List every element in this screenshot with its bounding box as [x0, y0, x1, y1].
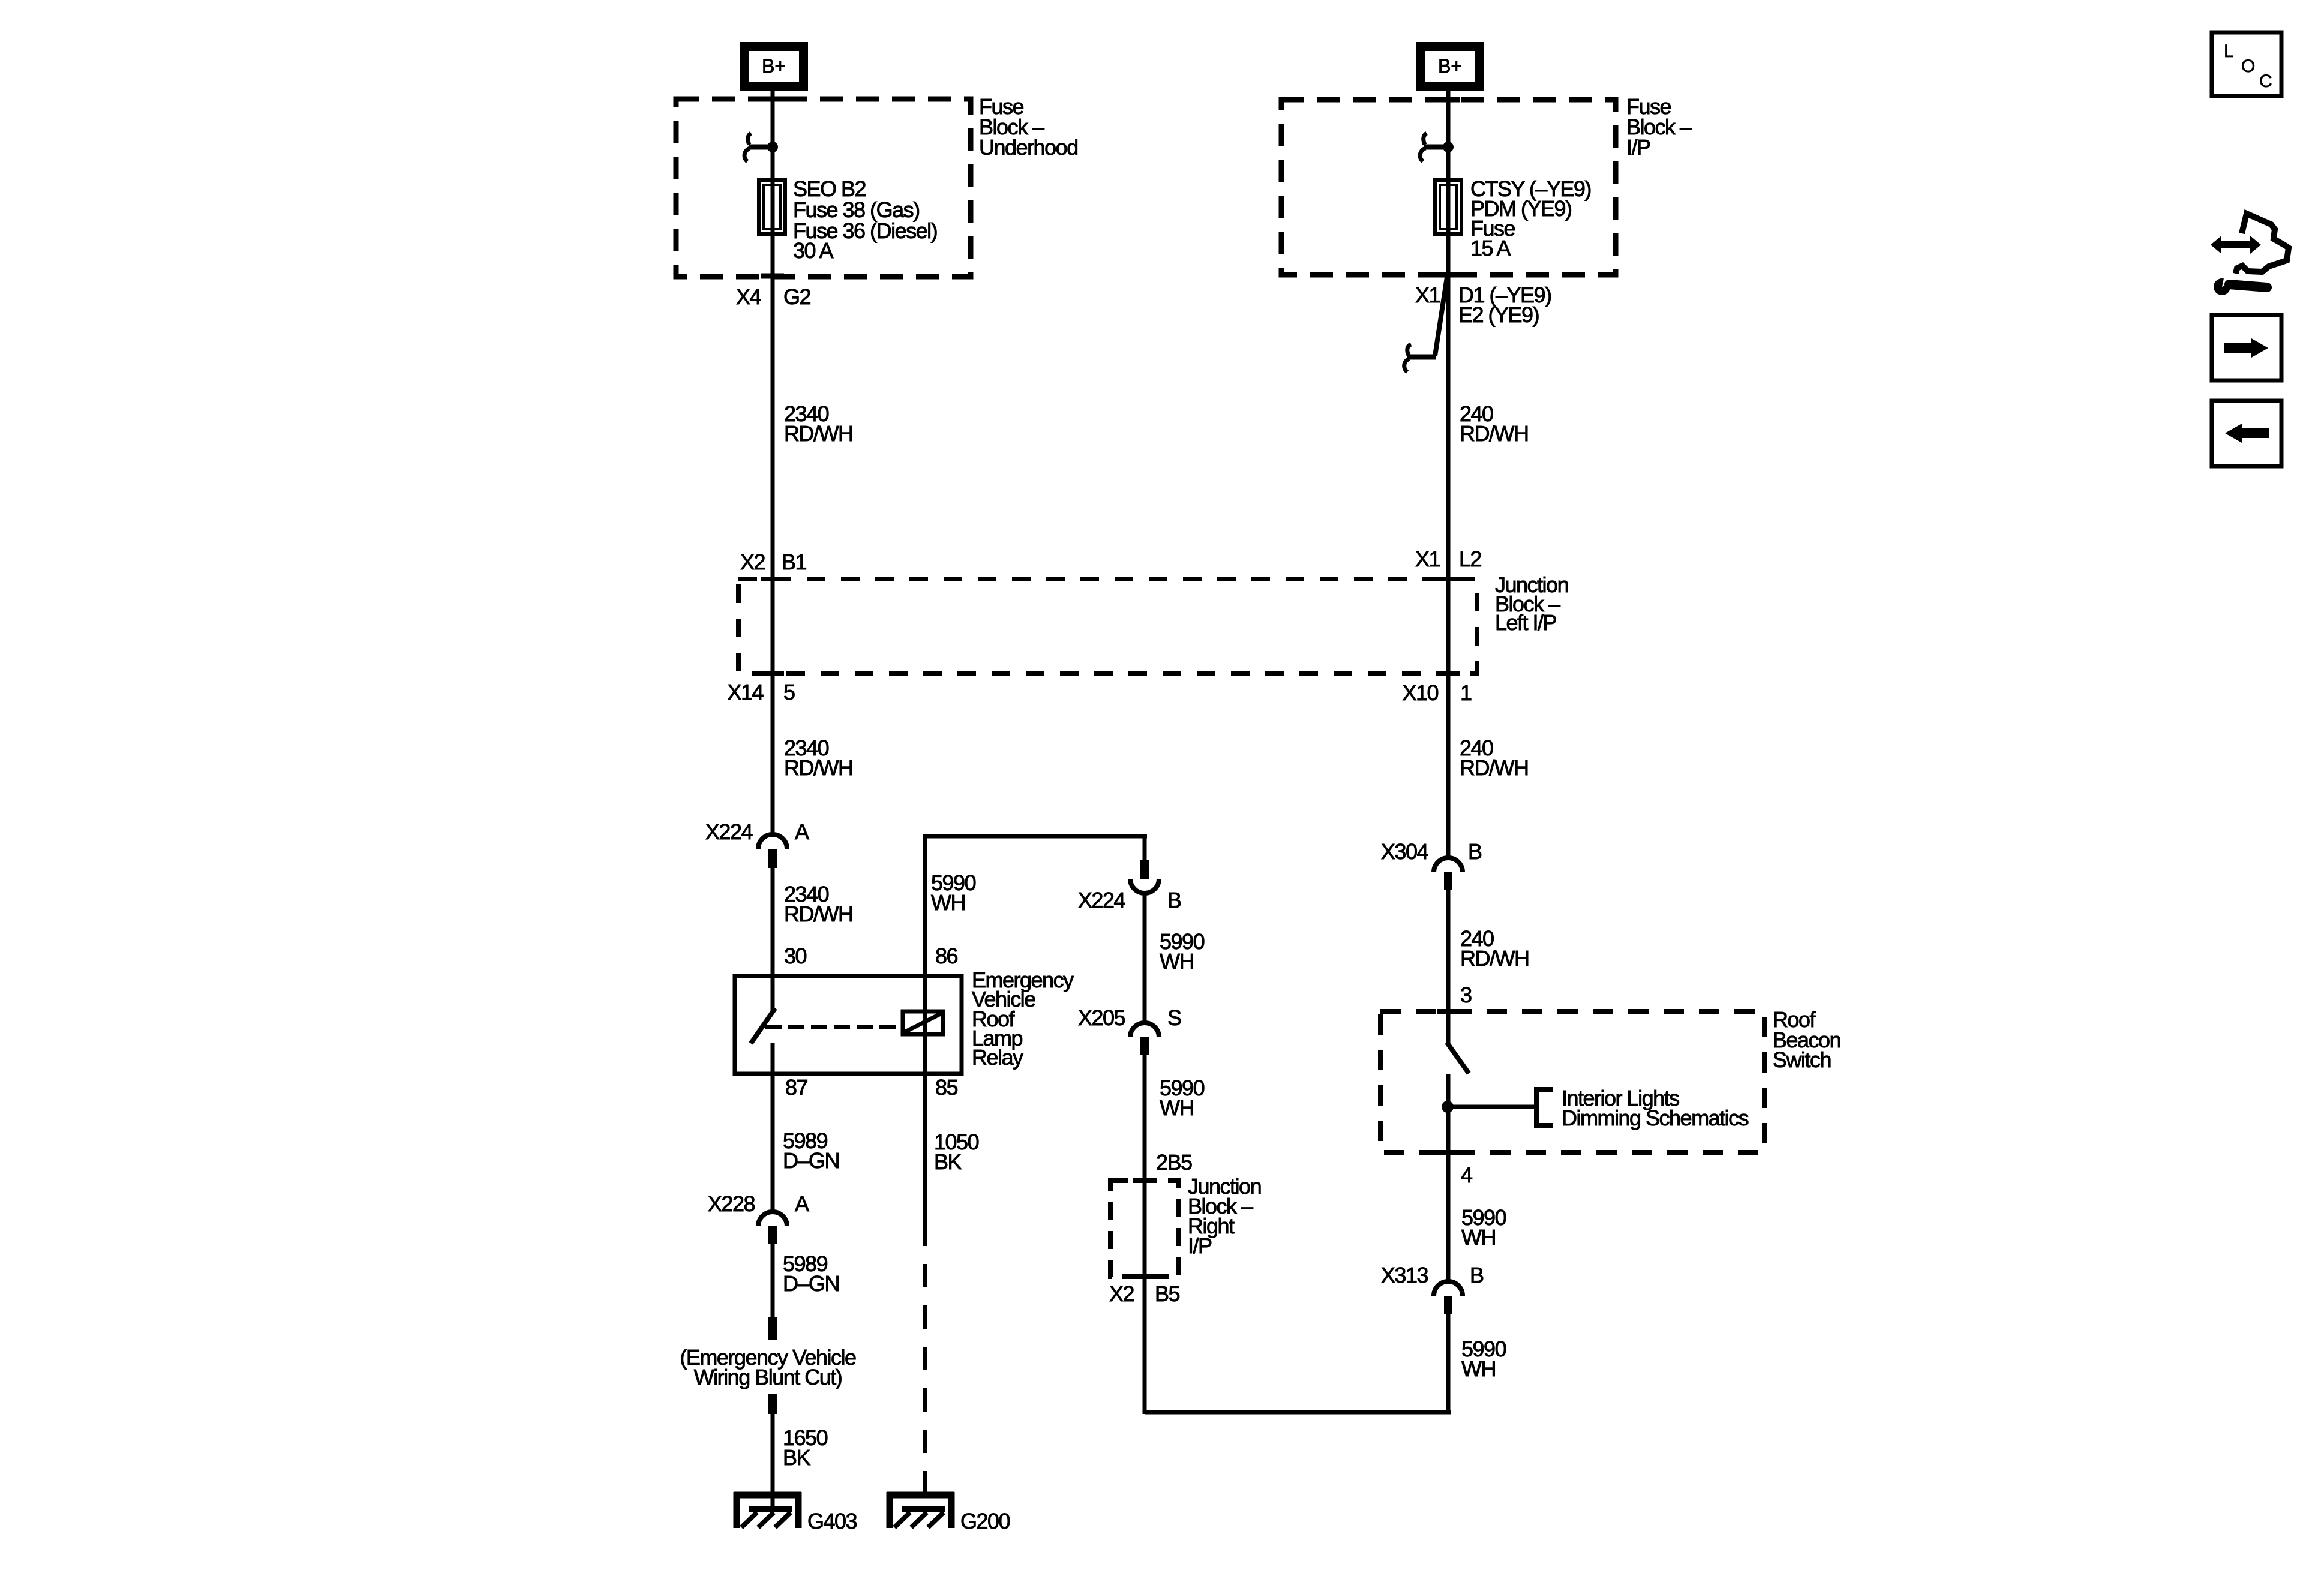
svg-text:RD/WH: RD/WH — [1460, 421, 1528, 446]
wire to dimming reference — [1448, 1105, 1536, 1109]
svg-text:2B5: 2B5 — [1156, 1150, 1192, 1175]
svg-text:WH: WH — [931, 890, 965, 915]
svg-text:3: 3 — [1460, 983, 1472, 1007]
svg-text:B1: B1 — [782, 550, 807, 574]
svg-text:A: A — [795, 1191, 809, 1216]
svg-text:Switch: Switch — [1773, 1047, 1831, 1072]
tick X4/G2 — [761, 274, 784, 279]
svg-text:L: L — [2224, 41, 2234, 61]
LOC box — [2212, 32, 2281, 96]
wire X313 to bottom corner — [1446, 1314, 1451, 1414]
wire to ground G403 — [771, 1394, 775, 1509]
svg-text:A: A — [795, 819, 809, 844]
connector X228 pin A — [758, 1212, 787, 1244]
svg-text:WH: WH — [1461, 1225, 1496, 1250]
connector X205 pin S — [1130, 1023, 1159, 1055]
svg-text:I/P: I/P — [1188, 1233, 1212, 1258]
svg-text:30 A: 30 A — [793, 238, 834, 263]
tick X1/D1 — [1437, 272, 1460, 278]
tick X10/1 — [1437, 671, 1460, 676]
off-page reference bracket — [1536, 1089, 1553, 1125]
svg-text:B5: B5 — [1155, 1281, 1180, 1306]
tick pin 3 — [1437, 1009, 1460, 1014]
blunt cut terminal upper — [768, 1317, 777, 1340]
wire fuse to X224 A (left main) — [771, 180, 775, 835]
svg-text:RD/WH: RD/WH — [784, 421, 852, 446]
B+ terminal (right) — [1416, 42, 1484, 91]
tick X1/L2 — [1437, 577, 1460, 581]
ground G403 — [734, 1492, 801, 1528]
svg-text:RD/WH: RD/WH — [1460, 755, 1528, 780]
switch lower contact to X313 — [1446, 1074, 1451, 1283]
diagnostic icon wrench — [2214, 273, 2267, 295]
svg-text:X224: X224 — [1078, 888, 1125, 912]
svg-text:WH: WH — [1461, 1356, 1496, 1381]
svg-text:BK: BK — [934, 1149, 962, 1174]
wire relay 87 to X228 — [771, 1074, 775, 1210]
svg-text:X4: X4 — [736, 284, 761, 309]
svg-text:D–GN: D–GN — [783, 1148, 839, 1173]
svg-text:30: 30 — [784, 944, 807, 968]
svg-text:86: 86 — [935, 944, 958, 968]
connector X224 pin A — [758, 834, 787, 868]
connector X224 pin B — [1130, 860, 1159, 893]
svg-text:WH: WH — [1160, 949, 1194, 974]
tick X2/B5 — [1133, 1274, 1156, 1279]
svg-text:4: 4 — [1461, 1163, 1472, 1187]
back arrow box — [2212, 401, 2281, 466]
svg-text:X224: X224 — [705, 819, 753, 844]
switch blade — [1448, 1044, 1467, 1071]
junction block left I/P box — [738, 579, 1477, 673]
fuse block underhood box — [676, 99, 971, 277]
svg-text:X1: X1 — [1415, 547, 1440, 571]
junction dot — [1442, 1101, 1454, 1113]
svg-text:B+: B+ — [762, 55, 786, 77]
clip symbol (left fuse block) — [744, 133, 778, 161]
relay actuation dashed line — [765, 1025, 903, 1029]
wire relay 85 dashed to G200 — [923, 1223, 927, 1509]
diagnostic icon double arrow — [2211, 236, 2261, 254]
svg-text:BK: BK — [783, 1445, 811, 1470]
wire relay 86/85 vertical — [923, 836, 927, 1223]
svg-text:D–GN: D–GN — [783, 1271, 839, 1296]
svg-text:Relay: Relay — [972, 1045, 1023, 1070]
svg-text:X2: X2 — [740, 550, 765, 574]
svg-text:G200: G200 — [960, 1509, 1010, 1533]
svg-text:WH: WH — [1160, 1095, 1194, 1120]
wire B+ to fuse (left) — [771, 91, 775, 181]
relay switch lower contact stub — [771, 1043, 775, 1074]
svg-text:X205: X205 — [1078, 1005, 1125, 1030]
svg-text:RD/WH: RD/WH — [1460, 946, 1529, 971]
connector X304 pin B — [1434, 858, 1463, 890]
svg-text:G2: G2 — [783, 284, 811, 309]
junction block right I/P box — [1110, 1181, 1178, 1277]
svg-text:B+: B+ — [1438, 55, 1462, 77]
B+ terminal (left) — [740, 42, 808, 91]
fuse SEO B2 (left) — [759, 180, 785, 234]
svg-text:X2: X2 — [1109, 1281, 1134, 1306]
wire top horizontal 86 to X224 B — [923, 834, 1147, 839]
fuse block I/P box — [1281, 100, 1616, 275]
blunt cut terminal lower — [768, 1394, 777, 1414]
svg-text:X14: X14 — [727, 680, 763, 704]
svg-text:5: 5 — [783, 680, 795, 704]
svg-text:L2: L2 — [1459, 547, 1482, 571]
ground G200 — [887, 1492, 954, 1528]
svg-text:C: C — [2259, 71, 2272, 91]
svg-text:RD/WH: RD/WH — [784, 902, 852, 926]
svg-text:I/P: I/P — [1626, 135, 1650, 160]
wire X224B to X205 — [1143, 893, 1147, 1024]
roof beacon switch box — [1380, 1011, 1764, 1152]
svg-text:X10: X10 — [1402, 680, 1438, 705]
svg-text:85: 85 — [935, 1075, 958, 1100]
wire bottom horizontal — [1145, 1410, 1451, 1415]
svg-text:B: B — [1167, 888, 1181, 912]
tick X14/5 — [761, 671, 784, 676]
svg-text:X304: X304 — [1381, 839, 1428, 864]
relay switch blade — [752, 1010, 774, 1041]
wire B+ to fuse (right) — [1446, 91, 1451, 181]
wire X304 to switch — [1446, 890, 1451, 1044]
wire corner down to X224 B — [1143, 836, 1147, 861]
svg-text:Dimming Schematics: Dimming Schematics — [1562, 1106, 1749, 1130]
wire X228 to blunt cut — [771, 1244, 775, 1340]
svg-text:X1: X1 — [1415, 283, 1440, 307]
wire X205 to junction block right — [1143, 1055, 1147, 1414]
wire fuse to X304 (right main) — [1446, 180, 1451, 859]
tick 2B5 — [1133, 1178, 1156, 1183]
svg-text:X228: X228 — [708, 1191, 755, 1216]
svg-text:O: O — [2241, 56, 2255, 76]
tick pin 4 — [1437, 1150, 1460, 1155]
svg-text:87: 87 — [785, 1075, 808, 1100]
forward arrow box — [2212, 315, 2281, 380]
diagnostic icon panel outline — [2236, 214, 2289, 274]
svg-text:Underhood: Underhood — [979, 135, 1078, 160]
clip with diagonal lead (below right fuse block) — [1404, 277, 1447, 372]
svg-text:RD/WH: RD/WH — [784, 755, 852, 780]
clip symbol (right fuse block) — [1420, 133, 1454, 161]
svg-text:G403: G403 — [807, 1509, 857, 1533]
wire X224A to relay pin 30 — [771, 867, 775, 1011]
svg-text:15 A: 15 A — [1470, 236, 1511, 260]
svg-text:Left I/P: Left I/P — [1495, 610, 1557, 635]
tick at fuse block top edge (left) — [761, 97, 784, 102]
tick X2/B1 — [761, 577, 784, 581]
tick at fuse block top edge (right) — [1437, 97, 1460, 103]
relay coil — [903, 1011, 943, 1034]
svg-text:E2 (YE9): E2 (YE9) — [1458, 302, 1539, 327]
svg-text:B: B — [1470, 1263, 1484, 1287]
svg-text:1: 1 — [1460, 680, 1472, 705]
relay box Emergency Vehicle Roof Lamp Relay — [735, 976, 962, 1074]
svg-text:Wiring Blunt Cut): Wiring Blunt Cut) — [694, 1365, 842, 1389]
connector X313 pin B — [1434, 1281, 1463, 1314]
fuse CTSY/PDM (right) — [1435, 180, 1461, 234]
svg-text:S: S — [1167, 1005, 1181, 1030]
svg-text:X313: X313 — [1381, 1263, 1428, 1287]
svg-text:B: B — [1468, 839, 1482, 864]
